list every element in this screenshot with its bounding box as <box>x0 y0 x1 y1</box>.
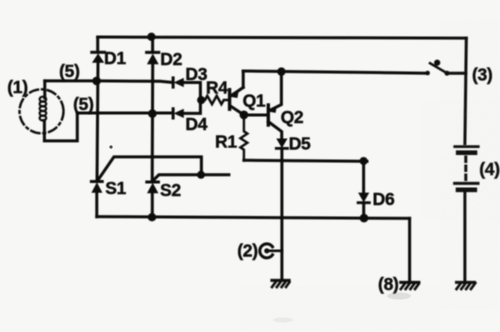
wire bottom bus <box>97 217 410 219</box>
wire switch to right vertical <box>447 72 466 75</box>
svg-text:D4: D4 <box>185 114 207 134</box>
wire Q2 base to node A <box>244 114 268 117</box>
node bus2 dot <box>148 109 157 118</box>
wire Q2 collector <box>268 122 281 139</box>
battery B1 plate long bottom <box>455 182 478 185</box>
wire vertical1 top D1 <box>96 37 99 52</box>
diode D3 bar <box>172 78 175 87</box>
node A Q1 collector dot <box>240 111 249 120</box>
wire D3 to node <box>184 83 201 101</box>
svg-text:Q2: Q2 <box>281 107 304 127</box>
wire S2 gate <box>153 175 201 180</box>
wire S1 gate <box>98 157 201 180</box>
resistor R4 <box>201 96 229 104</box>
switch contact left <box>425 71 430 76</box>
terminal 2 center dot <box>264 248 269 253</box>
switch contact right <box>445 71 450 76</box>
wire Q1 emitter to rail <box>242 71 245 87</box>
diode D6 bar <box>358 201 369 204</box>
svg-text:Q1: Q1 <box>243 90 266 110</box>
transistor Q2 base bar <box>267 105 270 125</box>
wire Q1 emitter lead <box>232 88 244 96</box>
resistor R1 <box>240 115 247 161</box>
wire D4 to node <box>184 100 201 113</box>
svg-text:D3: D3 <box>185 64 207 84</box>
diode D3 triangle <box>174 78 184 87</box>
wire battery to ground <box>463 192 466 281</box>
node D6 top dot <box>360 157 368 165</box>
node gate dot <box>197 171 205 179</box>
diode D1 triangle <box>92 53 104 62</box>
svg-text:(5): (5) <box>73 94 94 114</box>
battery B1 dashed middle <box>464 157 467 180</box>
transistor Q2 emitter arrow <box>268 105 277 113</box>
thyristor S2 triangle <box>147 183 158 193</box>
scan noise right side <box>240 20 500 330</box>
diode D5 triangle <box>276 139 287 149</box>
wire vertical2 middle <box>151 64 155 181</box>
diode D4 triangle <box>174 109 184 118</box>
transistor Q1 base bar <box>228 90 231 110</box>
thyristor S1 bar <box>91 180 102 183</box>
wire S2 to bus <box>151 193 154 217</box>
node Q2 emitter on rail <box>277 67 285 75</box>
battery B1 plate short top <box>458 150 475 155</box>
wire emitter rail y72 <box>243 71 427 73</box>
wire D5 down to ground 2 <box>280 148 283 279</box>
wire Q2 emitter lead <box>270 72 282 111</box>
diode D2 triangle <box>147 54 159 65</box>
battery B1 plate short bottom <box>458 188 475 193</box>
wire gate stub right <box>201 173 229 176</box>
diode D6 triangle <box>358 193 369 203</box>
smudge bottom center <box>273 318 293 323</box>
wire R1 bottom to D6 branch <box>244 160 367 161</box>
svg-text:D5: D5 <box>289 133 311 153</box>
svg-text:R4: R4 <box>206 77 228 97</box>
svg-text:S2: S2 <box>160 180 181 200</box>
svg-text:D6: D6 <box>373 189 395 209</box>
svg-text:(2): (2) <box>237 241 258 261</box>
diode D4 bar <box>172 109 175 118</box>
wire right vertical to battery <box>465 38 466 143</box>
svg-text:D1: D1 <box>104 48 126 68</box>
wire S1 to bus <box>95 193 98 217</box>
svg-text:(5): (5) <box>59 61 80 81</box>
wire vertical2 top D2 <box>151 37 154 52</box>
node top junction at D2 <box>147 33 155 41</box>
switch blade <box>430 63 447 73</box>
ground battery <box>457 282 476 289</box>
wire D6 anode lead <box>362 161 365 193</box>
wire terminal 2 tap <box>267 250 282 253</box>
wire generator top lead <box>43 81 46 98</box>
node D6 bus dot <box>360 214 369 223</box>
diode D1 bar <box>92 51 105 54</box>
thyristor S2 bar <box>147 181 159 184</box>
battery B1 plate long top <box>455 145 478 148</box>
transistor Q1 emitter arrow <box>230 90 239 98</box>
node S2 bus dot <box>148 213 156 221</box>
svg-text:S1: S1 <box>105 178 126 198</box>
wire bus to ground 8 <box>408 218 411 281</box>
smudge below ground 8 <box>387 293 411 300</box>
node bus1 dot <box>92 77 101 86</box>
diode D2 bar <box>147 51 159 54</box>
switch blade tip <box>434 60 440 66</box>
svg-text:R1: R1 <box>215 132 237 152</box>
thyristor S1 triangle <box>91 182 102 193</box>
diode D5 bar <box>276 147 287 150</box>
wire generator bottom staircase <box>44 113 173 141</box>
wire bus1 generator to D3 <box>45 81 173 83</box>
wire D6 cathode to bus <box>362 203 365 219</box>
node R4 input dot <box>197 96 205 104</box>
generator coil <box>40 97 47 121</box>
wire vertical1 middle <box>97 63 98 182</box>
ground terminal8 <box>401 282 419 289</box>
wire top rail <box>98 37 467 38</box>
ground terminal2 <box>272 280 290 287</box>
svg-text:(1): (1) <box>7 77 28 97</box>
speck near bus2 <box>109 145 112 148</box>
svg-text:D2: D2 <box>160 49 182 69</box>
wire Q1 collector <box>230 106 244 115</box>
terminal 2 circle <box>260 244 273 258</box>
generator G dashed circle <box>20 89 64 133</box>
